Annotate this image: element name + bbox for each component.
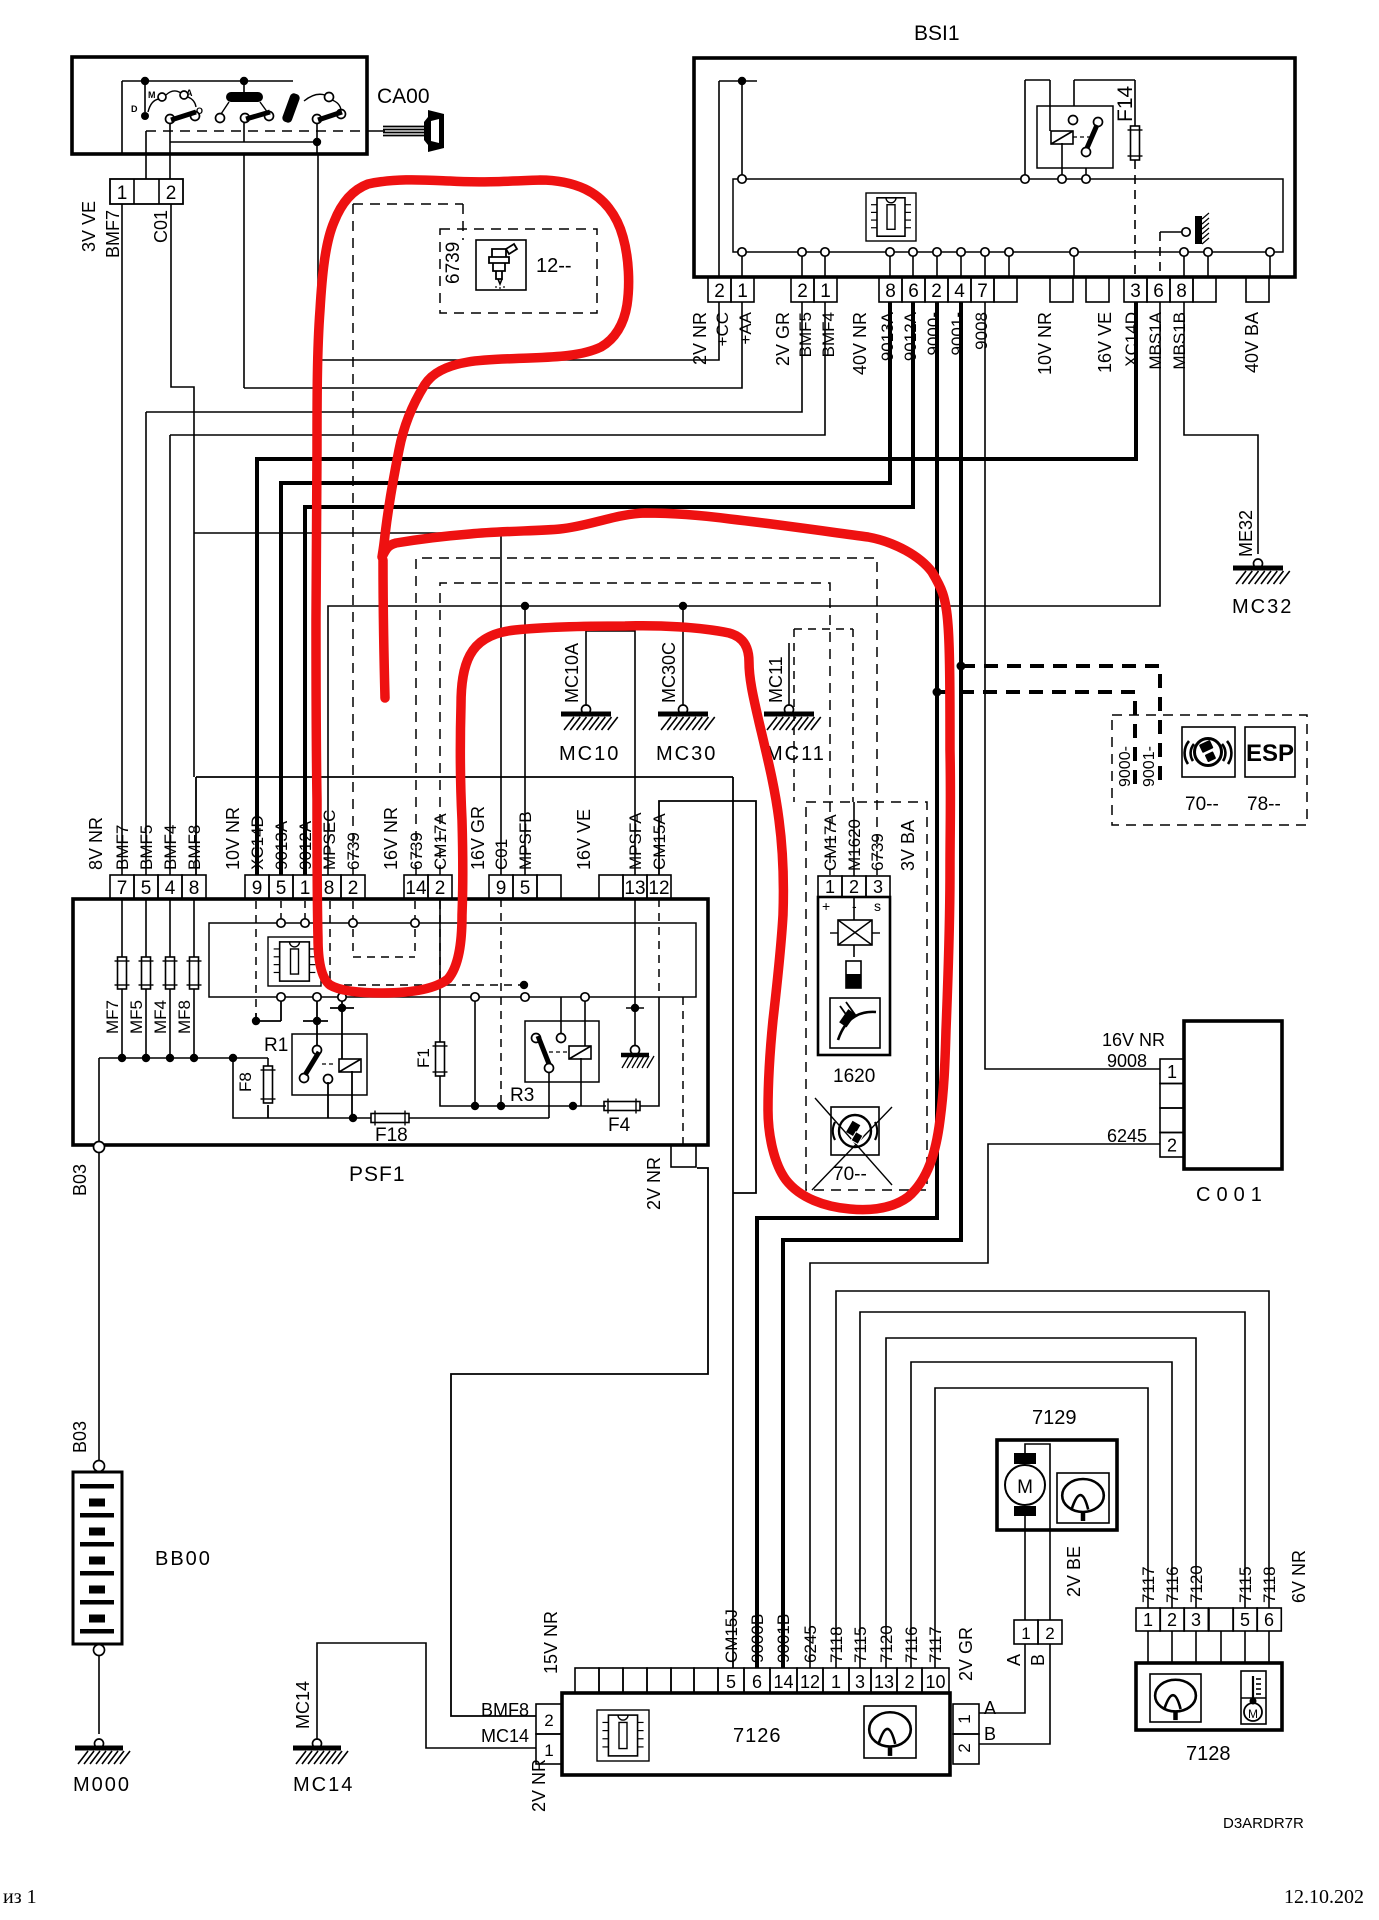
wire MBS1A [328, 302, 1160, 875]
svg-text:2: 2 [797, 281, 808, 302]
svg-text:2: 2 [435, 878, 446, 899]
svg-text:6245: 6245 [801, 1625, 820, 1663]
wire 7120 [886, 1338, 1196, 1668]
svg-text:3: 3 [855, 1672, 865, 1692]
svg-text:9008: 9008 [972, 312, 991, 350]
ESC icon [1182, 727, 1235, 777]
svg-text:2: 2 [1045, 1624, 1054, 1643]
svg-text:A: A [1004, 1654, 1024, 1666]
svg-text:MBS1B: MBS1B [1170, 312, 1189, 370]
svg-text:6: 6 [1153, 281, 1164, 302]
thick dashed 9000- stub [933, 688, 942, 697]
PSF1 unit [73, 899, 708, 1145]
svg-text:R1: R1 [264, 1035, 288, 1056]
fuse F4 [604, 1102, 640, 1111]
svg-text:9000-: 9000- [924, 312, 943, 355]
wire MBS1B to MC32 [1184, 302, 1258, 554]
svg-text:1: 1 [820, 281, 831, 302]
module 1620 [806, 802, 927, 1190]
thick wire XC14D [257, 302, 1136, 875]
svg-text:MC10: MC10 [559, 743, 620, 765]
svg-text:MC11: MC11 [766, 656, 786, 703]
svg-text:2V NR: 2V NR [690, 312, 710, 365]
injector 6739 [352, 204, 354, 875]
wire CM15A net [659, 801, 756, 1193]
thick wire 9000- [757, 302, 937, 1668]
fuse F18 [233, 1058, 371, 1118]
svg-text:9000-: 9000- [1117, 746, 1134, 787]
svg-text:9008: 9008 [1107, 1051, 1147, 1071]
wire BMF7 [121, 204, 123, 875]
ESP label box [1245, 727, 1295, 777]
7126 pin row [575, 1668, 599, 1693]
svg-text:5: 5 [1240, 1610, 1250, 1630]
gauge 7126 [864, 1706, 916, 1758]
svg-text:F4: F4 [608, 1115, 631, 1136]
svg-text:9013A: 9013A [272, 820, 291, 870]
motor M [1005, 1465, 1045, 1505]
wire 7118 [836, 1291, 1269, 1668]
PSF1 inner bus box [209, 923, 696, 997]
svg-text:5: 5 [276, 878, 287, 899]
svg-text:2: 2 [714, 281, 725, 302]
svg-text:MC30C: MC30C [659, 642, 679, 703]
svg-text:13: 13 [874, 1672, 894, 1692]
svg-text:5: 5 [520, 878, 531, 899]
PSF1 pin row [110, 875, 134, 899]
svg-text:MC14: MC14 [293, 1774, 354, 1796]
svg-text:2V BE: 2V BE [1064, 1546, 1084, 1597]
gauge 7129 [1057, 1473, 1109, 1523]
svg-text:40V NR: 40V NR [850, 312, 870, 375]
svg-text:MBS1A: MBS1A [1146, 311, 1165, 369]
svg-text:1: 1 [300, 878, 311, 899]
svg-text:9012A: 9012A [901, 311, 920, 361]
svg-text:MF4: MF4 [151, 1000, 170, 1034]
red annotation stroke [316, 180, 950, 1210]
switch contact 1 [144, 81, 146, 112]
ground MC30 [679, 705, 688, 714]
svg-text:2: 2 [849, 877, 859, 897]
ESP module box [1112, 715, 1307, 825]
svg-text:7129: 7129 [1032, 1407, 1077, 1429]
svg-text:M000: M000 [73, 1774, 131, 1796]
svg-text:1: 1 [831, 1672, 841, 1692]
indicator symbol [846, 961, 861, 988]
svg-text:3: 3 [1130, 281, 1141, 302]
wire +AA [244, 302, 742, 388]
7126 left connector [536, 1704, 562, 1734]
svg-text:2V GR: 2V GR [773, 312, 793, 366]
svg-text:MC32: MC32 [1232, 596, 1293, 618]
svg-text:7: 7 [117, 878, 128, 899]
svg-text:BMF7: BMF7 [103, 210, 123, 258]
lamp symbol [853, 897, 855, 920]
svg-text:7: 7 [977, 281, 988, 302]
svg-text:6739: 6739 [344, 832, 363, 870]
svg-text:F14: F14 [1114, 85, 1137, 122]
IC PSF1 [268, 937, 321, 986]
svg-text:16V NR: 16V NR [381, 807, 401, 870]
wire 2V NR tab to 7126 [451, 1168, 708, 1716]
svg-text:BMF4: BMF4 [161, 825, 180, 870]
svg-text:3: 3 [1191, 1610, 1201, 1630]
svg-text:B: B [1028, 1654, 1048, 1666]
svg-text:2V NR: 2V NR [529, 1759, 549, 1812]
wire BMF8 net horizontal [196, 776, 733, 778]
thermo/motor icon [1241, 1671, 1266, 1724]
svg-text:70--: 70-- [1185, 794, 1219, 815]
svg-text:3: 3 [873, 877, 883, 897]
svg-text:2: 2 [1167, 1136, 1177, 1156]
svg-text:PSF1: PSF1 [349, 1163, 406, 1186]
svg-text:D3ARDR7R: D3ARDR7R [1223, 1815, 1304, 1832]
svg-text:R3: R3 [510, 1085, 534, 1106]
wire [255, 1013, 257, 1021]
svg-text:XC14D: XC14D [248, 815, 267, 870]
rain-light sensor symbol [830, 998, 880, 1048]
svg-text:D: D [131, 104, 138, 114]
svg-text:2: 2 [348, 878, 359, 899]
svg-text:из 1: из 1 [3, 1886, 37, 1908]
svg-text:6739: 6739 [868, 833, 887, 871]
svg-text:14: 14 [773, 1672, 793, 1692]
fuses MF7 MF5 MF4 MF8 [121, 899, 123, 957]
svg-text:14: 14 [405, 878, 427, 899]
wire MC10A [586, 631, 635, 875]
svg-text:6739: 6739 [443, 242, 464, 284]
svg-text:2: 2 [931, 281, 942, 302]
svg-text:9000B: 9000B [748, 1614, 767, 1663]
IC BSI [866, 193, 916, 241]
svg-text:BMF8: BMF8 [185, 825, 204, 870]
svg-text:M: M [148, 90, 156, 100]
svg-text:8: 8 [324, 878, 335, 899]
PSF1 2V NR tab [671, 1145, 696, 1167]
mechanical link [146, 130, 367, 132]
svg-text:MPSEC: MPSEC [320, 810, 339, 870]
wire 9008 [985, 302, 1160, 1069]
svg-text:MF5: MF5 [127, 1000, 146, 1034]
7126 right connector [953, 1704, 979, 1734]
wire bus [99, 1057, 268, 1059]
svg-text:CM15J: CM15J [722, 1609, 741, 1663]
wire [170, 141, 317, 143]
svg-text:6: 6 [908, 281, 919, 302]
svg-text:C01: C01 [151, 210, 171, 243]
wire C01 branch [194, 533, 501, 875]
svg-text:MC10A: MC10A [562, 643, 582, 703]
svg-text:CM17A: CM17A [821, 814, 840, 871]
svg-text:1: 1 [1167, 1062, 1177, 1082]
svg-text:2: 2 [544, 1711, 553, 1730]
svg-text:78--: 78-- [1247, 794, 1281, 815]
svg-text:16V NR: 16V NR [1102, 1030, 1165, 1050]
connector C01 [110, 179, 183, 204]
svg-text:MC11: MC11 [766, 743, 826, 765]
wire B [979, 1644, 1050, 1744]
svg-text:BMF8: BMF8 [481, 1700, 529, 1720]
svg-text:9001-: 9001- [1141, 746, 1158, 787]
svg-text:16V VE: 16V VE [1095, 312, 1115, 373]
svg-text:MF7: MF7 [103, 1000, 122, 1034]
svg-text:BMF7: BMF7 [113, 825, 132, 870]
svg-text:12: 12 [648, 878, 669, 899]
red annotation pen tail [383, 560, 385, 698]
7128 pin row [1136, 1608, 1160, 1631]
svg-text:4: 4 [165, 878, 176, 899]
svg-text:M: M [1017, 1477, 1033, 1498]
svg-text:BMF5: BMF5 [796, 312, 815, 357]
svg-text:C001: C001 [1196, 1184, 1268, 1206]
svg-text:1: 1 [825, 877, 835, 897]
svg-text:ME32: ME32 [1236, 510, 1256, 557]
svg-text:2V GR: 2V GR [956, 1627, 976, 1681]
svg-text:1: 1 [737, 281, 748, 302]
svg-text:XC14D: XC14D [1122, 312, 1141, 367]
wire MC30C [682, 606, 684, 707]
svg-text:8: 8 [885, 281, 896, 302]
BSI pin row [708, 277, 731, 302]
svg-text:8: 8 [189, 878, 200, 899]
svg-text:C01: C01 [492, 839, 511, 870]
svg-text:10V NR: 10V NR [223, 807, 243, 870]
svg-text:F1: F1 [414, 1048, 433, 1068]
key [367, 130, 385, 132]
wire C01-2 to BMF8 [171, 204, 194, 777]
wire [1025, 1444, 1050, 1530]
dashed net CM17A PSF1-1620 [440, 583, 830, 875]
svg-text:BMF5: BMF5 [137, 825, 156, 870]
svg-text:9: 9 [252, 878, 263, 899]
BSI internal ground [1159, 232, 1161, 277]
svg-text:F8: F8 [236, 1072, 255, 1092]
thick wire 9013A [281, 302, 890, 875]
svg-text:MC14: MC14 [481, 1726, 529, 1746]
module 7126 [562, 1693, 950, 1775]
svg-text:10V NR: 10V NR [1035, 312, 1055, 375]
svg-text:2V NR: 2V NR [644, 1157, 664, 1210]
relay BSI [1037, 106, 1113, 168]
svg-text:BMF4: BMF4 [819, 312, 838, 357]
ground MC32 [1254, 559, 1263, 568]
svg-text:8: 8 [1176, 281, 1187, 302]
wire BMF4 [170, 302, 825, 435]
wire A [979, 1644, 1025, 1713]
svg-text:BB00: BB00 [155, 1548, 212, 1570]
svg-text:40V BA: 40V BA [1242, 312, 1262, 373]
svg-text:4: 4 [954, 281, 965, 302]
svg-text:s: s [874, 898, 881, 914]
svg-text:6739: 6739 [407, 832, 426, 870]
svg-text:9001B: 9001B [774, 1614, 793, 1663]
svg-text:2: 2 [955, 1743, 974, 1752]
svg-text:3V BA: 3V BA [898, 820, 918, 871]
svg-text:2: 2 [1167, 1610, 1177, 1630]
svg-text:10: 10 [925, 1672, 945, 1692]
svg-text:16V VE: 16V VE [574, 809, 594, 870]
svg-text:BSI1: BSI1 [914, 22, 960, 45]
wire 7116 [911, 1362, 1172, 1668]
svg-text:70--: 70-- [833, 1164, 867, 1185]
svg-text:ESP: ESP [1246, 740, 1294, 767]
svg-text:9013A: 9013A [878, 311, 897, 361]
svg-text:6V NR: 6V NR [1289, 1550, 1309, 1603]
svg-text:+CC: +CC [713, 312, 732, 346]
7129 connector [1014, 1620, 1038, 1644]
gauge 7128 [1150, 1674, 1201, 1722]
svg-text:B03: B03 [70, 1164, 90, 1196]
svg-text:12: 12 [800, 1672, 820, 1692]
svg-text:B: B [984, 1724, 996, 1744]
PSF1 internal ground [634, 899, 636, 1046]
thick dashed 9001- stub [957, 662, 966, 671]
svg-text:CM17A: CM17A [431, 813, 450, 870]
svg-text:6245: 6245 [1107, 1126, 1147, 1146]
svg-text:B03: B03 [70, 1421, 90, 1453]
svg-text:13: 13 [624, 878, 645, 899]
wire MC11 [794, 628, 853, 630]
svg-text:+: + [822, 898, 830, 914]
wire MPSFB [524, 606, 526, 875]
svg-text:CM15A: CM15A [650, 813, 669, 870]
svg-text:M: M [1248, 1707, 1258, 1721]
wire [1025, 79, 1050, 81]
svg-text:7126: 7126 [733, 1725, 782, 1747]
svg-text:1: 1 [1143, 1610, 1153, 1630]
ground M000 [95, 1739, 104, 1748]
svg-text:5: 5 [726, 1672, 736, 1692]
ground MC14 [313, 1739, 322, 1748]
svg-text:1: 1 [544, 1741, 553, 1760]
svg-text:2: 2 [166, 183, 177, 204]
wire +CC [318, 302, 719, 360]
svg-text:12--: 12-- [536, 255, 572, 277]
svg-text:15V NR: 15V NR [541, 1611, 561, 1674]
ground MC11 [785, 705, 794, 714]
ignition switch CA00 [72, 57, 367, 154]
svg-text:CA00: CA00 [377, 85, 430, 108]
IC 7126 [597, 1710, 649, 1761]
svg-text:6: 6 [1264, 1610, 1274, 1630]
svg-text:9: 9 [496, 878, 507, 899]
wire [122, 80, 293, 82]
wire [719, 80, 757, 82]
wire 7115 [860, 1312, 1245, 1668]
svg-text:F18: F18 [375, 1125, 408, 1146]
svg-text:+AA: +AA [736, 311, 755, 344]
thick wire 9012A [305, 302, 913, 875]
svg-text:7128: 7128 [1186, 1743, 1231, 1765]
svg-text:3V VE: 3V VE [79, 201, 99, 252]
wire 6245 [810, 1144, 1160, 1668]
crossed horn symbol 70 [831, 1107, 879, 1155]
switch contact 2 [243, 81, 245, 92]
dashed net 6739 PSF1-1620 [416, 558, 877, 875]
svg-text:9012A: 9012A [296, 820, 315, 870]
svg-text:MC30: MC30 [656, 743, 717, 765]
svg-text:9001-: 9001- [948, 312, 967, 355]
svg-text:1620: 1620 [833, 1066, 875, 1087]
svg-text:6: 6 [752, 1672, 762, 1692]
switch contact 3 [281, 92, 301, 124]
svg-text:1: 1 [117, 183, 128, 204]
svg-text:MC14: MC14 [293, 1681, 313, 1729]
svg-text:1: 1 [1021, 1624, 1030, 1643]
svg-text:MPSFA: MPSFA [626, 812, 645, 870]
svg-text:2: 2 [904, 1672, 914, 1692]
svg-text:MPSFB: MPSFB [516, 811, 535, 870]
svg-text:8V NR: 8V NR [86, 817, 106, 870]
svg-text:5: 5 [141, 878, 152, 899]
svg-text:A: A [984, 1698, 996, 1718]
svg-text:12.10.202: 12.10.202 [1284, 1886, 1364, 1908]
thick wire 9001- [783, 302, 961, 1668]
wire BMF5 [146, 302, 802, 412]
svg-text:16V GR: 16V GR [468, 806, 488, 870]
svg-text:1: 1 [955, 1714, 974, 1723]
module 7128 [1136, 1663, 1282, 1730]
ground MC10 [582, 705, 591, 714]
svg-text:MF8: MF8 [175, 1000, 194, 1034]
wire CM15J [730, 1380, 732, 1668]
wire 7117 [935, 1388, 1148, 1668]
connector C001 [1184, 1021, 1282, 1169]
